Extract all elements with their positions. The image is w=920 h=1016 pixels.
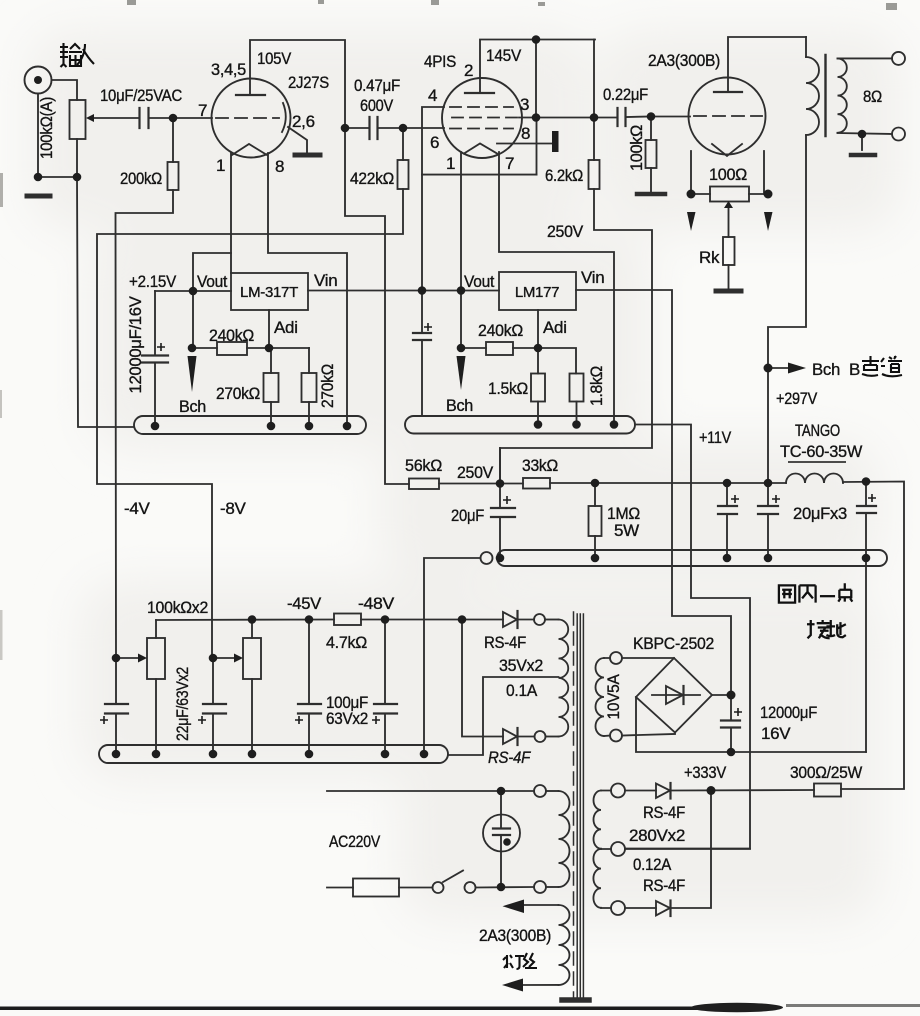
svg-text:12000μF/16V: 12000μF/16V xyxy=(126,296,145,394)
svg-text:AC220V: AC220V xyxy=(329,832,381,851)
svg-text:300Ω/25W: 300Ω/25W xyxy=(790,763,862,782)
svg-text:0.1A: 0.1A xyxy=(506,681,538,700)
svg-text:+297V: +297V xyxy=(776,389,818,408)
svg-text:56kΩ: 56kΩ xyxy=(405,456,442,475)
svg-text:10V5A: 10V5A xyxy=(604,674,623,720)
svg-text:0.22μF: 0.22μF xyxy=(603,85,648,104)
svg-text:20μF: 20μF xyxy=(451,506,484,525)
svg-text:-45V: -45V xyxy=(287,594,322,613)
svg-text:0.12A: 0.12A xyxy=(633,855,672,874)
svg-text:RS-4F: RS-4F xyxy=(643,803,685,822)
svg-text:Bch: Bch xyxy=(446,396,473,415)
svg-text:240kΩ: 240kΩ xyxy=(478,321,523,340)
svg-text:280Vx2: 280Vx2 xyxy=(629,826,685,845)
svg-text:270kΩ: 270kΩ xyxy=(318,364,337,408)
svg-text:4: 4 xyxy=(428,86,437,105)
svg-text:+2.15V: +2.15V xyxy=(129,272,177,291)
svg-text:250V: 250V xyxy=(457,463,494,482)
svg-text:2,6: 2,6 xyxy=(292,112,315,131)
svg-text:105V: 105V xyxy=(257,49,292,68)
svg-text:6.2kΩ: 6.2kΩ xyxy=(545,166,583,185)
svg-text:Rk: Rk xyxy=(699,248,720,267)
svg-text:8: 8 xyxy=(521,124,530,143)
svg-text:63Vx2: 63Vx2 xyxy=(326,709,368,728)
svg-text:100kΩ(A): 100kΩ(A) xyxy=(37,97,56,159)
svg-text:7: 7 xyxy=(505,154,514,173)
svg-text:TC-60-35W: TC-60-35W xyxy=(780,442,862,461)
svg-text:8Ω: 8Ω xyxy=(863,87,882,106)
svg-text:+11V: +11V xyxy=(699,428,732,447)
svg-text:2A3(300B): 2A3(300B) xyxy=(648,51,720,70)
svg-text:Bch: Bch xyxy=(812,360,840,379)
svg-text:TANGO: TANGO xyxy=(795,421,840,440)
svg-text:2A3(300B): 2A3(300B) xyxy=(479,926,551,945)
svg-text:20μFx3: 20μFx3 xyxy=(793,504,847,523)
svg-text:2: 2 xyxy=(464,61,473,80)
svg-text:270kΩ: 270kΩ xyxy=(216,384,260,403)
svg-text:1.5kΩ: 1.5kΩ xyxy=(488,379,528,398)
svg-text:Adi: Adi xyxy=(543,318,567,337)
svg-text:16V: 16V xyxy=(761,724,791,743)
svg-text:0.47μF: 0.47μF xyxy=(354,76,400,95)
svg-text:12000μF: 12000μF xyxy=(760,703,817,722)
svg-text:33kΩ: 33kΩ xyxy=(522,456,558,475)
svg-text:3: 3 xyxy=(520,95,529,114)
svg-text:422kΩ: 422kΩ xyxy=(350,169,394,188)
svg-text:Bch: Bch xyxy=(179,397,206,416)
svg-text:10μF/25VAC: 10μF/25VAC xyxy=(100,86,182,105)
svg-text:Adi: Adi xyxy=(274,318,298,337)
svg-text:240kΩ: 240kΩ xyxy=(209,326,254,345)
svg-text:LM177: LM177 xyxy=(515,284,559,301)
svg-text:-8V: -8V xyxy=(220,499,247,518)
svg-text:6: 6 xyxy=(430,133,439,152)
svg-text:22μF/63Vx2: 22μF/63Vx2 xyxy=(173,667,192,741)
svg-text:100Ω: 100Ω xyxy=(709,165,747,184)
svg-text:-4V: -4V xyxy=(124,499,151,518)
svg-text:Vin: Vin xyxy=(581,268,604,287)
svg-text:1.8kΩ: 1.8kΩ xyxy=(587,366,606,406)
svg-text:RS-4F: RS-4F xyxy=(643,876,685,895)
svg-text:8: 8 xyxy=(275,157,284,176)
svg-text:100kΩ: 100kΩ xyxy=(627,125,646,171)
svg-text:Vout: Vout xyxy=(464,272,495,291)
svg-text:145V: 145V xyxy=(486,46,522,65)
svg-text:1: 1 xyxy=(446,154,455,173)
svg-text:7: 7 xyxy=(198,101,207,120)
svg-text:Vout: Vout xyxy=(197,272,228,291)
svg-text:RS-4F: RS-4F xyxy=(484,633,526,652)
svg-text:+333V: +333V xyxy=(684,763,727,782)
svg-text:B: B xyxy=(849,360,860,379)
svg-text:LM-317T: LM-317T xyxy=(240,284,298,301)
svg-text:200kΩ: 200kΩ xyxy=(120,169,162,188)
svg-text:35Vx2: 35Vx2 xyxy=(499,656,543,675)
svg-text:1: 1 xyxy=(216,156,225,175)
svg-text:250V: 250V xyxy=(547,222,584,241)
svg-text:3,4,5: 3,4,5 xyxy=(211,60,246,79)
svg-text:100kΩx2: 100kΩx2 xyxy=(147,598,208,617)
svg-text:RS-4F: RS-4F xyxy=(488,748,532,767)
svg-text:4.7kΩ: 4.7kΩ xyxy=(326,633,367,652)
svg-text:-48V: -48V xyxy=(358,594,395,613)
svg-text:2J27S: 2J27S xyxy=(288,73,329,92)
svg-text:5W: 5W xyxy=(614,521,639,540)
svg-text:4PIS: 4PIS xyxy=(424,52,456,71)
svg-text:Vin: Vin xyxy=(314,271,337,290)
svg-text:600V: 600V xyxy=(360,96,394,115)
svg-text:KBPC-2502: KBPC-2502 xyxy=(633,634,714,653)
